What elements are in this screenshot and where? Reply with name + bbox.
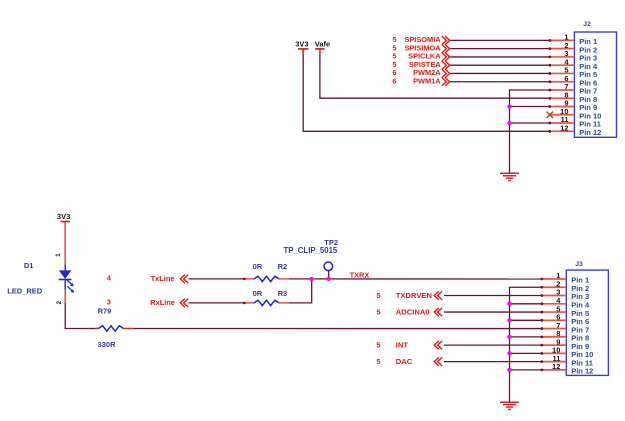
svg-text:Pin 12: Pin 12 xyxy=(579,128,601,137)
svg-text:330R: 330R xyxy=(98,340,117,349)
svg-text:5: 5 xyxy=(376,357,380,366)
svg-text:12: 12 xyxy=(552,362,560,371)
svg-text:R3: R3 xyxy=(278,289,288,298)
svg-text:R2: R2 xyxy=(278,262,288,271)
svg-text:0R: 0R xyxy=(253,289,263,298)
svg-text:DAC: DAC xyxy=(396,357,413,366)
svg-text:0R: 0R xyxy=(253,262,263,271)
svg-text:PWM1A: PWM1A xyxy=(413,76,441,85)
svg-text:TXRX: TXRX xyxy=(350,270,370,279)
svg-text:Vafe: Vafe xyxy=(315,39,330,48)
svg-text:1: 1 xyxy=(55,253,62,257)
svg-text:J3: J3 xyxy=(575,261,583,268)
svg-text:TP_CLIP_5015: TP_CLIP_5015 xyxy=(284,246,338,255)
svg-text:5: 5 xyxy=(376,308,380,317)
svg-text:6: 6 xyxy=(392,76,396,85)
svg-text:3: 3 xyxy=(107,297,111,306)
svg-text:12: 12 xyxy=(560,123,568,132)
svg-text:RxLine: RxLine xyxy=(150,298,175,307)
svg-text:J2: J2 xyxy=(583,21,591,28)
svg-text:3V3: 3V3 xyxy=(295,39,308,48)
svg-text:TxLine: TxLine xyxy=(151,274,175,283)
svg-text:LED_RED: LED_RED xyxy=(7,286,43,295)
svg-text:TXDRVEN: TXDRVEN xyxy=(396,291,432,300)
svg-text:ADCINA0: ADCINA0 xyxy=(396,308,430,317)
svg-text:5: 5 xyxy=(376,341,380,350)
svg-text:Pin 12: Pin 12 xyxy=(571,367,593,376)
svg-text:3V3: 3V3 xyxy=(57,212,70,221)
svg-text:D1: D1 xyxy=(24,261,34,270)
svg-text:R79: R79 xyxy=(98,307,112,316)
svg-text:5: 5 xyxy=(376,291,380,300)
svg-text:2: 2 xyxy=(56,301,63,305)
svg-text:INT: INT xyxy=(396,341,409,350)
